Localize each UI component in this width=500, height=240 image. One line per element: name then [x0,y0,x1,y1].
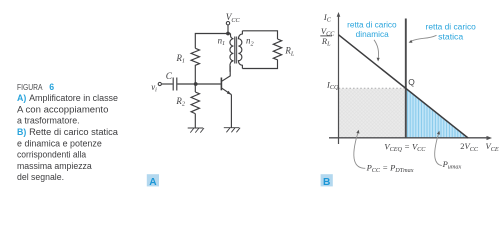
svg-text:del segnale.: del segnale. [17,172,64,182]
shaded PCC region (gray hatched) [339,89,406,138]
wire R1 to base node [194,69,196,83]
emitter arrowhead [227,91,231,95]
svg-text:statica: statica [438,32,464,41]
input terminal vi [158,82,161,85]
svg-text:retta di carico: retta di carico [426,22,477,31]
static load line [405,19,407,139]
axis IC (y) [338,15,340,145]
transistor Q1 base bar [220,78,222,91]
callout arrow to dynamic line [374,40,379,59]
wire base node to transistor base [196,83,221,85]
svg-text:massima ampiezza: massima ampiezza [17,161,92,171]
chart cyan annotations [347,21,476,42]
svg-text:FIGURA: FIGURA [17,82,43,92]
svg-text:A): A) [17,93,26,103]
svg-text:Amplificatore in classe: Amplificatore in classe [29,93,118,103]
svg-text:vi: vi [151,82,157,94]
wire VCC terminal down [227,25,229,33]
wire capacitor to base node [177,83,195,85]
svg-text:ICQ: ICQ [326,79,339,91]
resistor R2 [191,92,199,114]
VCC terminal [226,22,229,25]
svg-text:Pumax: Pumax [442,159,462,171]
svg-text:B: B [323,177,330,188]
svg-text:2VCC: 2VCC [460,141,479,153]
wire VCC rail [195,34,230,49]
svg-text:R2: R2 [175,96,185,108]
svg-text:RL: RL [284,46,294,58]
svg-text:C: C [166,72,173,82]
svg-text:B): B) [17,127,26,137]
svg-text:PCC = PDTmax: PCC = PDTmax [366,162,414,174]
transistor collector lead [222,66,230,81]
shaded Pumax triangle (blue hatched) [407,90,468,138]
label box B [321,174,333,188]
svg-text:R1: R1 [176,53,186,65]
svg-text:VCEQ = VCC: VCEQ = VCC [384,141,426,153]
svg-text:VCE: VCE [486,141,499,153]
svg-text:corrispondenti alla: corrispondenti alla [17,150,86,160]
svg-text:A: A [149,177,157,188]
svg-text:n2: n2 [246,36,254,48]
circuit labels [151,12,295,108]
svg-text:A con accoppiamento: A con accoppiamento [17,104,109,114]
wire R2 to ground [194,114,196,128]
svg-text:n1: n1 [218,35,226,47]
svg-text:retta di carico: retta di carico [347,21,397,30]
transistor emitter lead [222,88,232,94]
emitter wire down [230,95,232,128]
node base junction [194,82,198,86]
svg-text:e dinamica e potenze: e dinamica e potenze [17,138,102,148]
transformer core [235,37,237,64]
svg-text:Q: Q [408,77,415,87]
wire base node to R2 [194,86,196,93]
capacitor C [173,78,177,91]
transformer T1 primary winding n1 [230,34,233,72]
ground below R2 [188,128,204,133]
callout arrow to PCC region [354,133,365,169]
label box A [147,174,159,188]
svg-text:6: 6 [49,82,54,92]
chart text labels [321,12,499,174]
dashed line ICQ [339,87,406,89]
resistor R1 [191,48,199,68]
wire input to capacitor [162,83,173,85]
wire RL bottom to secondary [242,62,277,69]
ground below emitter [224,128,240,133]
transformer secondary winding n2 [238,31,242,69]
wire secondary top to RL [242,31,277,39]
dynamic load line [338,35,468,138]
axis VCE (x) [329,137,489,139]
fraction bar VCC/RL [320,35,332,37]
svg-text:dinamica: dinamica [356,30,389,39]
svg-text:Rette di carico statica: Rette di carico statica [29,127,118,137]
callout arrow to Pumax region [435,134,442,166]
resistor RL [273,39,281,62]
node VCC junction dot [226,32,230,36]
svg-text:a trasformatore.: a trasformatore. [17,116,80,126]
svg-text:IC: IC [323,12,332,24]
callout arrow to static line [411,35,436,41]
